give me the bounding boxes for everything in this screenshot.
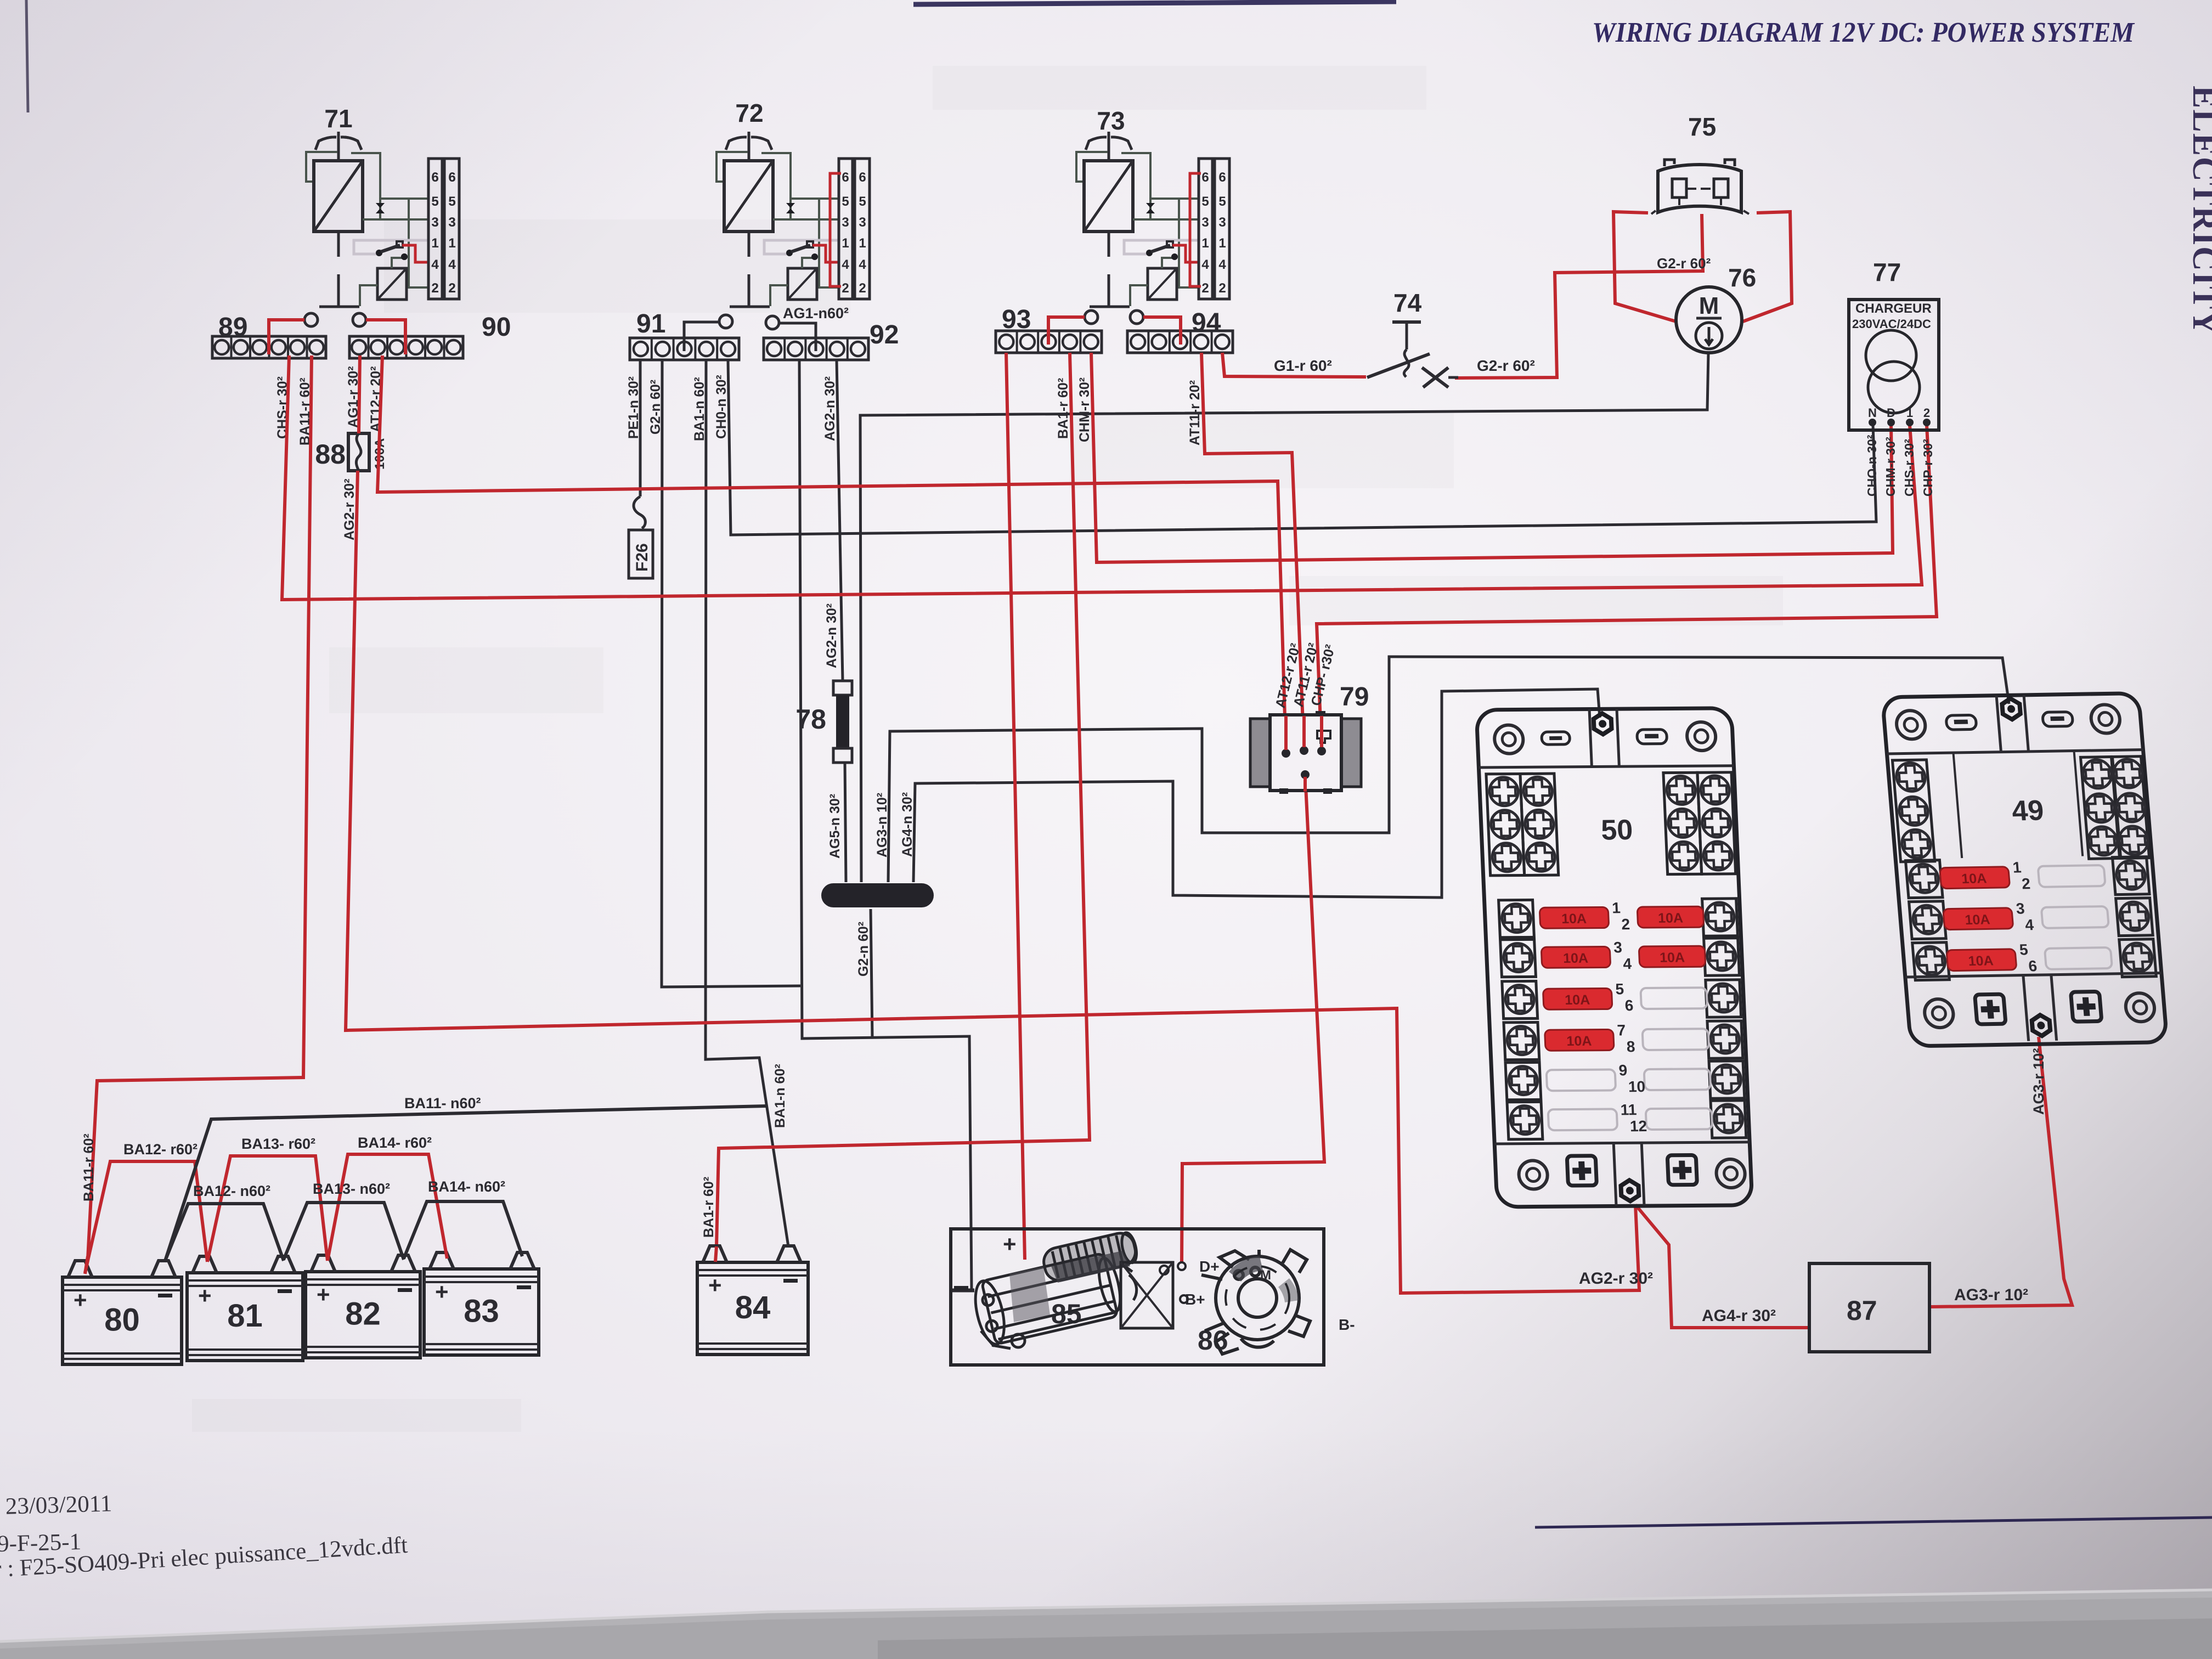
svg-text:92: 92: [870, 320, 899, 349]
svg-text:50: 50: [1600, 814, 1633, 846]
svg-text:BA12- r60²: BA12- r60²: [123, 1141, 198, 1158]
svg-text:75: 75: [1688, 112, 1716, 141]
svg-text:AG5-n 30²: AG5-n 30²: [827, 794, 843, 859]
svg-text:B-: B-: [1339, 1316, 1355, 1333]
svg-text:10A: 10A: [1658, 910, 1684, 926]
svg-text:93: 93: [1002, 305, 1031, 334]
svg-text:2: 2: [2021, 875, 2031, 892]
svg-text:AG1-n60²: AG1-n60²: [783, 305, 849, 321]
svg-text:10A: 10A: [1660, 950, 1685, 965]
svg-text:D+: D+: [1199, 1258, 1220, 1275]
svg-text:81: 81: [227, 1298, 263, 1334]
svg-text:CHO-n 30²: CHO-n 30²: [1865, 435, 1879, 496]
svg-text:9: 9: [1618, 1062, 1628, 1079]
svg-text:87: 87: [1847, 1295, 1877, 1326]
svg-text:10: 10: [1628, 1078, 1645, 1095]
svg-text:M: M: [1699, 292, 1719, 319]
svg-text:CHM-r 30²: CHM-r 30²: [1077, 377, 1092, 442]
svg-text:BA1-r 60²: BA1-r 60²: [701, 1177, 716, 1238]
svg-text:F26: F26: [633, 543, 651, 572]
svg-text:2: 2: [1621, 916, 1630, 933]
svg-text:3: 3: [2016, 900, 2025, 917]
svg-text:BA11- n60²: BA11- n60²: [404, 1095, 481, 1111]
svg-text:CHP-r 30²: CHP-r 30²: [1921, 439, 1935, 496]
svg-text:N: N: [1868, 406, 1877, 420]
svg-text:71: 71: [324, 104, 352, 133]
svg-text:BA13- n60²: BA13- n60²: [313, 1181, 390, 1197]
svg-text:7: 7: [1617, 1022, 1626, 1039]
svg-text:89: 89: [218, 313, 247, 342]
svg-text:CHARGEUR: CHARGEUR: [1855, 301, 1932, 316]
svg-text:+: +: [317, 1282, 330, 1307]
svg-text:72: 72: [735, 99, 763, 127]
svg-text:83: 83: [464, 1294, 499, 1329]
svg-text:CHM-r 30²: CHM-r 30²: [1883, 437, 1898, 496]
svg-text:+: +: [435, 1279, 449, 1305]
svg-text:M: M: [1260, 1268, 1271, 1283]
svg-text:+: +: [74, 1287, 87, 1313]
svg-text:BA14- r60²: BA14- r60²: [358, 1135, 432, 1151]
svg-text:G2-r 60²: G2-r 60²: [1657, 255, 1711, 272]
svg-text:AG3-r 10²: AG3-r 10²: [1954, 1286, 2028, 1304]
svg-text:76: 76: [1728, 263, 1756, 292]
svg-text:G2-r 60²: G2-r 60²: [1477, 357, 1535, 374]
svg-text:D: D: [1887, 406, 1895, 420]
svg-text:5: 5: [2019, 941, 2029, 958]
svg-text:AG4-r 30²: AG4-r 30²: [1702, 1307, 1776, 1325]
svg-text:BA13- r60²: BA13- r60²: [241, 1136, 315, 1152]
svg-text:4: 4: [1623, 955, 1632, 972]
svg-text:WIRING DIAGRAM 12V DC: POWER S: WIRING DIAGRAM 12V DC: POWER SYSTEM: [1592, 17, 2135, 48]
svg-text:AG2-n 30²: AG2-n 30²: [824, 603, 839, 668]
svg-text:4: 4: [2024, 916, 2035, 933]
svg-text:230VAC/24DC: 230VAC/24DC: [1852, 317, 1931, 331]
svg-text:1: 1: [1906, 406, 1913, 420]
svg-text:AG2-r 30²: AG2-r 30²: [1579, 1269, 1653, 1288]
svg-text:1: 1: [1612, 899, 1621, 916]
svg-text:CHS-r 30²: CHS-r 30²: [1902, 439, 1916, 496]
svg-text:BA1-n 60²: BA1-n 60²: [772, 1064, 788, 1128]
svg-text:8: 8: [1626, 1038, 1635, 1055]
svg-text:BA1-r 60²: BA1-r 60²: [1056, 378, 1071, 439]
svg-text:10A: 10A: [1964, 912, 1990, 928]
svg-text:CH0-n 30²: CH0-n 30²: [714, 375, 729, 439]
svg-text:10A: 10A: [1563, 951, 1589, 966]
svg-text:94: 94: [1192, 308, 1221, 337]
svg-text:91: 91: [636, 309, 665, 338]
svg-text:10A: 10A: [1565, 992, 1590, 1008]
svg-text:10A: 10A: [1566, 1034, 1592, 1049]
svg-text:80: 80: [104, 1302, 140, 1338]
svg-text:10A: 10A: [1961, 871, 1987, 887]
svg-text:90: 90: [482, 313, 511, 342]
svg-text:AG2-n 30²: AG2-n 30²: [822, 376, 838, 441]
svg-text:12: 12: [1629, 1118, 1647, 1135]
svg-text:74: 74: [1393, 289, 1422, 317]
svg-text:88: 88: [315, 439, 346, 470]
svg-text:BA12- n60²: BA12- n60²: [193, 1183, 270, 1199]
svg-text:10A: 10A: [1968, 953, 1994, 969]
svg-text:2: 2: [1923, 406, 1930, 420]
svg-text:84: 84: [735, 1290, 771, 1325]
svg-text:73: 73: [1097, 106, 1125, 135]
svg-text:6: 6: [2028, 957, 2038, 974]
svg-text:6: 6: [1624, 997, 1634, 1014]
svg-text:BA14- n60²: BA14- n60²: [428, 1178, 505, 1195]
svg-text:+: +: [198, 1283, 212, 1308]
svg-text:82: 82: [345, 1296, 381, 1332]
svg-text:+: +: [708, 1272, 722, 1298]
svg-text:5: 5: [1615, 980, 1624, 997]
svg-text:79: 79: [1340, 682, 1369, 712]
svg-text:3: 3: [1613, 939, 1623, 956]
svg-text:G2-n 60²: G2-n 60²: [856, 922, 871, 977]
svg-text:+: +: [1003, 1231, 1017, 1257]
svg-text:ELECTRICITY: ELECTRICITY: [2186, 86, 2212, 336]
svg-text:BA11-r 60²: BA11-r 60²: [81, 1133, 97, 1201]
svg-text:11: 11: [1620, 1101, 1637, 1118]
svg-text:G1-r 60²: G1-r 60²: [1274, 357, 1332, 374]
svg-text:77: 77: [1873, 258, 1901, 286]
svg-text:1: 1: [2012, 859, 2022, 876]
svg-text:49: 49: [2011, 795, 2045, 827]
svg-text:10A: 10A: [1561, 911, 1587, 927]
svg-text:AG3-r 10²: AG3-r 10²: [2030, 1048, 2047, 1115]
svg-text:3 23/03/2011: 3 23/03/2011: [0, 1491, 112, 1520]
svg-text:86: 86: [1198, 1325, 1228, 1356]
